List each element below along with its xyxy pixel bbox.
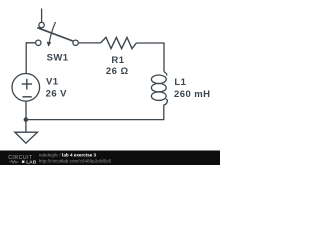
svg-text:V1: V1 (46, 77, 59, 88)
switch SW1 pivot terminal (top) (39, 22, 44, 27)
svg-text:L1: L1 (174, 77, 186, 88)
wire left throw to corner and down to V1 (26, 43, 35, 74)
svg-text:260 mH: 260 mH (174, 89, 211, 100)
svg-text:R1: R1 (111, 55, 124, 66)
switch SW1 left throw terminal (36, 40, 41, 45)
svg-text:SW1: SW1 (47, 53, 69, 64)
svg-text:LAB: LAB (26, 159, 37, 165)
L1 turn 1 (151, 75, 166, 84)
inductor L1 (151, 71, 167, 105)
switch SW1 blade (37, 28, 73, 41)
wire bottom return (26, 105, 164, 120)
wire junction to ground (25, 120, 27, 133)
resistor R1 (101, 37, 137, 48)
junction node (24, 117, 29, 122)
wire right throw to resistor (78, 42, 100, 44)
L1 turn 2 (151, 83, 166, 92)
switch SW1 motion arc (49, 22, 55, 42)
switch SW1 arrow head (47, 42, 52, 47)
voltage source V1 (12, 74, 40, 102)
V1 minus sign (22, 96, 31, 98)
wire switch top stub (41, 9, 43, 23)
V1 plus sign (22, 83, 32, 85)
L1 exit hook (164, 99, 168, 105)
logo square (22, 161, 25, 164)
L1 entry hook (164, 71, 167, 76)
svg-text:http://circuitlab.com/c6489p2e: http://circuitlab.com/c6489p2efd5e5 (39, 159, 112, 164)
footer bar (0, 151, 220, 166)
logo zigzag (9, 160, 18, 163)
switch SW1 right throw terminal (73, 40, 78, 45)
svg-text:26 V: 26 V (46, 89, 68, 100)
L1 turn 3 (151, 92, 166, 101)
ground (15, 132, 38, 143)
switch SW1 (36, 22, 79, 47)
svg-text:26 Ω: 26 Ω (106, 66, 129, 77)
wire V1 bottom to junction (25, 101, 27, 119)
svg-text:natelegilc / lab 4 exercise 3: natelegilc / lab 4 exercise 3 (39, 152, 97, 157)
wire resistor to top-right corner down to inductor (136, 43, 164, 71)
